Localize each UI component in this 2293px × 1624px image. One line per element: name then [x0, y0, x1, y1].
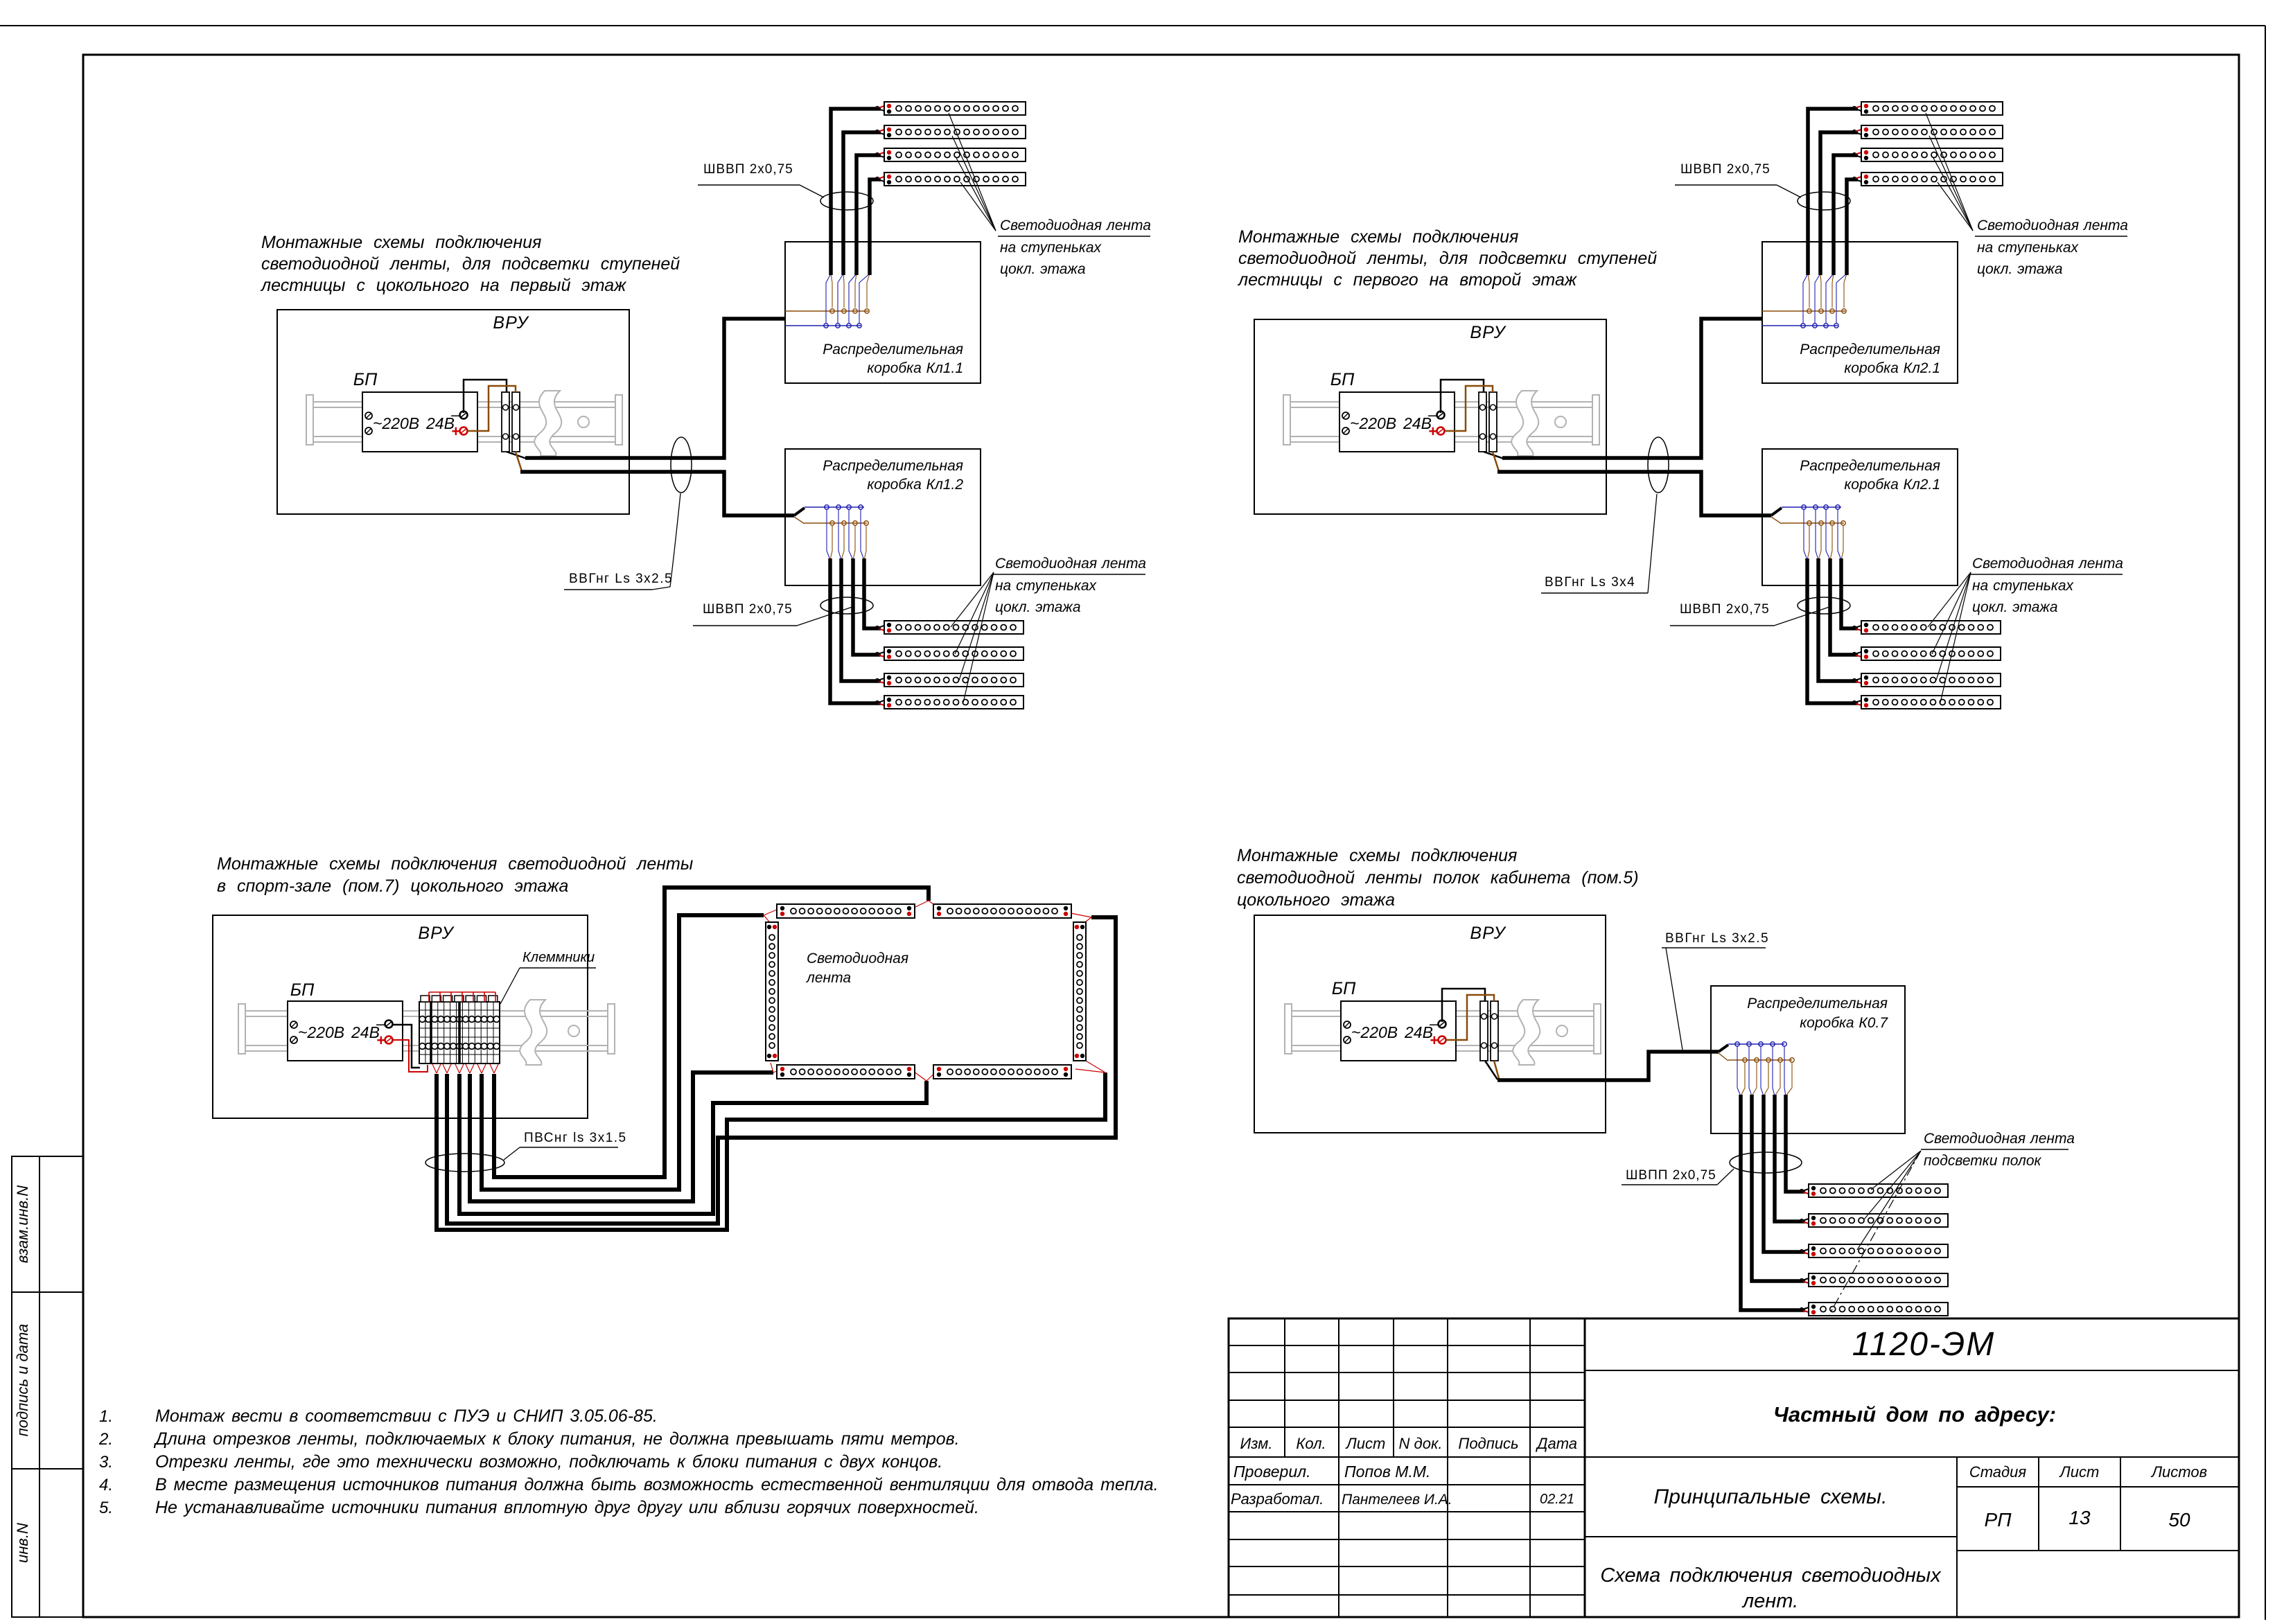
diagram 2 wire box Кл2.1 to LED strip 3 [1834, 152, 1863, 275]
svg-text:5.: 5. [99, 1499, 113, 1517]
diagram 3 wire terminal 2 to top-right corner [447, 917, 1116, 1224]
diagram 3 power supply unit BP [288, 1001, 403, 1061]
rotated label vzam.inv.N [14, 1185, 31, 1263]
diagram 2 LED strip 6 (lower group) [1861, 647, 2001, 660]
note 2 [98, 1429, 960, 1449]
svg-text:цокл. этажа: цокл. этажа [1000, 261, 1086, 277]
diagram 2 DIN terminal blocks [1479, 392, 1497, 452]
diagram 1 LED strip 6 (lower group) [884, 647, 1023, 660]
stage headers stadия list listov [1969, 1463, 2207, 1481]
diagram 4 LED strip 4 [1809, 1273, 1948, 1287]
svg-text:светодиодной ленты полок кабин: светодиодной ленты полок кабинета (пом.5… [1237, 868, 1639, 888]
diagram 2 wire PSU plus to terminal block (brown) [1445, 386, 1493, 431]
diagram 3 LED strip top-left [777, 904, 915, 918]
svg-text:02.21: 02.21 [1540, 1492, 1574, 1507]
diagram 2 box Кл2.1 feeder fan [1771, 508, 1782, 524]
diagram 1 LED strip 5 (lower group) [884, 621, 1023, 634]
svg-text:инв.N: инв.N [14, 1523, 31, 1563]
diagram 1 wire box Кл1.1 to LED strip 4 [870, 176, 886, 275]
svg-text:РП: РП [1985, 1509, 2012, 1530]
svg-text:на ступеньках: на ступеньках [1972, 578, 2075, 594]
svg-text:Монтажные схемы подключения: Монтажные схемы подключения [1237, 846, 1517, 865]
diagram 1 wire box Кл1.2 to LED strip 7 [841, 558, 886, 684]
diagram 1 wire PSU plus to terminal block (brown) [468, 386, 516, 431]
diagram 2 power supply label BP [1330, 370, 1355, 389]
diagram 4 cable marker ellipse SHVPP [1730, 1152, 1802, 1173]
svg-text:подпись и дата: подпись и дата [14, 1324, 31, 1437]
doc number 1120-EM [1852, 1326, 1996, 1363]
svg-text:БП: БП [353, 370, 378, 389]
diagram 2 distribution box Кл2.1 [1762, 449, 1958, 585]
diagram 4 DIN rail [1285, 1000, 1601, 1065]
diagram 1 wire box Кл1.2 to LED strip 6 [853, 558, 886, 657]
diagram 3 label Klemmniki [500, 950, 596, 1004]
svg-text:Дата: Дата [1535, 1435, 1577, 1452]
diagram 4 wire PSU plus to terminal block (brown) [1446, 995, 1494, 1040]
diagram 2 wire box Кл2.1 to LED strip 4 [1847, 176, 1863, 275]
diagram 4 wire box K0.7 to LED strip 5 [1741, 1095, 1811, 1313]
svg-text:подсветки полок: подсветки полок [1924, 1153, 2042, 1169]
diagram 3 LED strip left vertical [766, 922, 778, 1061]
svg-text:ВРУ: ВРУ [493, 313, 529, 333]
svg-text:Монтажные схемы подключения: Монтажные схемы подключения [261, 233, 541, 252]
svg-text:Кол.: Кол. [1296, 1435, 1326, 1452]
diagram 1 wire stubs below terminal blocks [507, 452, 527, 471]
svg-text:Частный дом по адресу:: Частный дом по адресу: [1773, 1402, 2056, 1427]
svg-text:Не устанавливайте источники пи: Не устанавливайте источники питания впло… [155, 1498, 979, 1517]
diagram 2 box Кл2.1 blue bus [1762, 324, 1838, 328]
diagram 1 LED strip 8 (lower group) [884, 696, 1023, 709]
diagram 3 wire terminal 4 to bottom-left corner [470, 1073, 773, 1201]
svg-text:Разработал.: Разработал. [1231, 1490, 1324, 1508]
svg-text:ШВПП 2x0,75: ШВПП 2x0,75 [1626, 1168, 1716, 1183]
diagram 3 DIN rail [238, 1000, 615, 1065]
svg-text:цокл. этажа: цокл. этажа [1977, 261, 2063, 277]
diagram 1 distribution box Кл1.1 [785, 242, 981, 383]
diagram 4 cable label SHVPP 2x0,75 [1622, 1168, 1734, 1185]
diagram 1 distribution box Кл1.2 [785, 449, 981, 585]
left margin attachment column [12, 1156, 83, 1617]
diagram 2 LED strip 2 (upper group) [1861, 125, 2003, 139]
diagram 3 wire terminal 5 to top-left corner [482, 915, 764, 1190]
diagram 2 cable marker ellipse ВВГнг Ls 3x4 [1648, 437, 1669, 493]
svg-text:ВРУ: ВРУ [1470, 924, 1506, 943]
diagram 3 wire terminal 3 to bottom middle junction [459, 1074, 926, 1214]
svg-text:БП: БП [290, 980, 315, 1000]
diagram 2 VRU label [1470, 323, 1506, 342]
diagram 1 wire box Кл1.1 to LED strip 1 [831, 105, 886, 275]
svg-text:~220В: ~220В [1350, 414, 1396, 432]
svg-text:коробка Кл1.2: коробка Кл1.2 [867, 477, 963, 493]
diagram 3 LED strip right vertical [1073, 922, 1086, 1061]
diagram 2 title text [1237, 227, 1657, 290]
svg-text:Распределительная: Распределительная [823, 458, 963, 474]
diagram 3 wire PSU plus to terminals (red) [392, 1040, 428, 1072]
diagram 4 box K0.7 wire fans [1737, 1046, 1792, 1096]
diagram 1 LED strip 1 (upper group) [884, 102, 1026, 115]
svg-text:Распределительная: Распределительная [1747, 996, 1888, 1012]
svg-text:цокольного этажа: цокольного этажа [1237, 890, 1395, 910]
diagram 2 upper cable marker SHVVP ellipse [1798, 192, 1850, 210]
diagram 2 DIN rail [1283, 391, 1599, 456]
svg-text:коробка Кл2.1: коробка Кл2.1 [1844, 360, 1940, 376]
svg-text:ВРУ: ВРУ [418, 924, 455, 943]
diagram 3 wire terminal 1 to bottom-right corner [437, 1073, 1105, 1230]
diagram 1 lower cable label SHVVP 2x0,75 [693, 602, 854, 626]
diagram 4 wire stubs below terminal blocks [1485, 1061, 1500, 1081]
diagram 4 distribution box K0.7 label [1747, 996, 1888, 1031]
diagram 2 wire box Кл2.1 to LED strip 8 [1807, 558, 1863, 706]
diagram 2 LED strip 8 (lower group) [1861, 696, 2001, 709]
diagram 2 wire box Кл2.1 to LED strip 1 [1808, 105, 1863, 275]
svg-text:Монтажные схемы подключения св: Монтажные схемы подключения светодиодной… [217, 854, 693, 874]
diagram 1 DIN rail [306, 391, 622, 456]
svg-text:взам.инв.N: взам.инв.N [14, 1185, 31, 1263]
diagram 3 cable marker ellipse PVSng [425, 1154, 504, 1172]
diagram 1 lower LED label leader lines [951, 572, 994, 703]
svg-text:Изм.: Изм. [1240, 1435, 1273, 1452]
svg-text:БП: БП [1332, 979, 1356, 998]
diagram 2 distribution box Кл2.1 label [1800, 458, 1940, 493]
diagram 1 LED strip 7 (lower group) [884, 673, 1023, 687]
diagram 1 cable label ВВГнг Ls 3x2.5 [564, 493, 680, 590]
svg-text:лент.: лент. [1741, 1590, 1798, 1612]
diagram 2 LED strip 7 (lower group) [1861, 673, 2001, 687]
diagram 1 cable feeder to box Кл1.1 [525, 319, 785, 458]
diagram 2 wire box Кл2.1 to LED strip 7 [1818, 558, 1863, 684]
sheet subject shema podklyucheniya [1600, 1564, 1942, 1612]
svg-text:Светодиодная лента: Светодиодная лента [1000, 218, 1151, 233]
svg-text:коробка К0.7: коробка К0.7 [1800, 1015, 1888, 1031]
diagram 1 box Кл1.2 brown bus [805, 521, 868, 525]
svg-text:ШВВП 2x0,75: ШВВП 2x0,75 [1680, 602, 1770, 617]
diagram 3 title text [217, 854, 693, 896]
diagram 1 box Кл1.1 wire fans [826, 274, 870, 324]
diagram 2 box Кл2.1 blue bus [1782, 505, 1841, 509]
diagram 1 upper cable label SHVVP 2x0,75 [698, 162, 824, 197]
diagram 1 DIN terminal blocks [502, 392, 520, 452]
diagram 4 title text [1237, 846, 1639, 910]
diagram 1 VRU cabinet box [277, 310, 629, 514]
svg-text:ШВВП 2x0,75: ШВВП 2x0,75 [703, 162, 793, 177]
sheet outer top edge [0, 25, 2265, 26]
note 1 [99, 1406, 658, 1426]
svg-text:2.: 2. [98, 1430, 113, 1449]
diagram 2 LED strip 3 (upper group) [1861, 148, 2003, 161]
svg-text:Распределительная: Распределительная [1800, 342, 1940, 358]
diagram 1 VRU label [493, 313, 529, 333]
rotated label inv.N [14, 1523, 31, 1563]
row proveril [1233, 1463, 1430, 1481]
diagram 1 distribution box Кл1.2 label [823, 458, 963, 493]
diagram 3 LED strip bottom-left [777, 1065, 915, 1079]
diagram 3 red corner connection fans [764, 901, 1105, 1081]
diagram 1 title text [260, 233, 680, 295]
rotated label podpis i data [14, 1324, 31, 1437]
svg-text:Схема подключения светодиодных: Схема подключения светодиодных [1600, 1564, 1942, 1587]
diagram 2 VRU cabinet box [1254, 319, 1606, 514]
svg-text:Лист: Лист [1345, 1435, 1386, 1452]
svg-text:БП: БП [1330, 370, 1355, 389]
svg-text:–: – [376, 1015, 385, 1032]
diagram 2 upper cable label SHVVP 2x0,75 [1675, 162, 1801, 197]
svg-text:+: + [1428, 423, 1437, 440]
diagram 4 LED strip 2 [1809, 1214, 1948, 1227]
svg-text:ШВВП 2x0,75: ШВВП 2x0,75 [1680, 162, 1771, 177]
diagram 2 LED strip 4 (upper group) [1861, 173, 2003, 186]
svg-text:3.: 3. [99, 1453, 113, 1472]
diagram 4 LED strip 3 [1809, 1244, 1948, 1257]
svg-text:цокл. этажа: цокл. этажа [995, 599, 1081, 615]
diagram 2 wire box Кл2.1 to LED strip 2 [1820, 129, 1863, 275]
diagram 2 distribution box Кл2.1 [1762, 242, 1958, 383]
svg-text:светодиодной ленты, для подсве: светодиодной ленты, для подсветки ступен… [261, 254, 680, 274]
diagram 2 cable feeder to box Кл2.1 [1502, 319, 1762, 458]
diagram 4 wire box K0.7 to LED strip 4 [1752, 1095, 1811, 1284]
svg-text:Монтажные схемы подключения: Монтажные схемы подключения [1238, 227, 1518, 247]
diagram 1 wire box Кл1.1 to LED strip 2 [843, 129, 886, 275]
svg-text:Попов М.М.: Попов М.М. [1344, 1463, 1430, 1481]
diagram 2 lower LED strips label [1970, 556, 2123, 615]
diagram 2 cable label ВВГнг Ls 3x4 [1541, 494, 1657, 593]
diagram 1 wire box Кл1.1 to LED strip 3 [856, 152, 886, 275]
diagram 1 LED strip 4 (upper group) [884, 173, 1026, 186]
diagram 1 box Кл1.1 blue bus [785, 324, 861, 328]
svg-text:24В: 24В [351, 1023, 380, 1041]
diagram 4 wire PSU minus to terminal block [1442, 989, 1485, 1022]
svg-text:N док.: N док. [1399, 1435, 1443, 1452]
diagram 3 terminal strip red connection fans [432, 1064, 498, 1073]
diagram 4 LED strip 1 [1809, 1184, 1948, 1197]
svg-text:1120-ЭМ: 1120-ЭМ [1852, 1326, 1996, 1363]
svg-text:В месте размещения источников: В месте размещения источников питания до… [155, 1475, 1159, 1494]
diagram 3 VRU label [418, 924, 455, 943]
diagram 3 label svetodiodnaya lenta [806, 951, 908, 986]
svg-text:Светодиодная лента: Светодиодная лента [1924, 1131, 2075, 1147]
svg-text:в спорт-зале (пом.7) цокольно: в спорт-зале (пом.7) цокольного этажа [217, 876, 568, 896]
svg-text:ВРУ: ВРУ [1470, 323, 1506, 342]
svg-text:13: 13 [2068, 1507, 2091, 1528]
diagram 3 LED strip bottom-right [933, 1065, 1071, 1079]
sheet title principialnye shemy [1654, 1485, 1888, 1508]
diagram 4 power supply label BP [1332, 979, 1356, 998]
svg-text:ВВГнг Ls 3x2.5: ВВГнг Ls 3x2.5 [569, 572, 673, 586]
svg-text:Светодиодная лента: Светодиодная лента [1972, 556, 2123, 572]
stage values RP 13 50 [1985, 1507, 2190, 1530]
svg-text:ВВГнг Ls 3x2.5: ВВГнг Ls 3x2.5 [1665, 931, 1769, 946]
diagram 2 box Кл2.1 brown bus [1762, 309, 1846, 313]
svg-text:~220В: ~220В [1351, 1023, 1398, 1041]
diagram 3 wire terminal 6 to top middle junction [494, 888, 929, 1177]
svg-text:+: + [1430, 1032, 1439, 1049]
svg-text:Лист: Лист [2059, 1463, 2100, 1481]
diagram 4 LED strip 5 [1809, 1303, 1948, 1316]
svg-text:–: – [1429, 1015, 1439, 1032]
diagram 2 LED strip 1 (upper group) [1861, 102, 2003, 115]
svg-text:Листов: Листов [2150, 1463, 2207, 1481]
svg-text:лестницы с первого на второй э: лестницы с первого на второй этаж [1237, 270, 1578, 290]
diagram 4 DIN terminal blocks [1480, 1001, 1498, 1061]
title block row lines (left table) [1229, 1345, 1585, 1595]
svg-text:Пантелеев И.А.: Пантелеев И.А. [1342, 1492, 1452, 1508]
diagram 2 lower LED label leader lines [1928, 572, 1971, 703]
svg-text:24В: 24В [425, 414, 455, 432]
svg-text:+: + [376, 1032, 385, 1049]
title block outer border [1229, 1318, 2239, 1617]
diagram 2 lower cable label SHVVP 2x0,75 [1670, 602, 1831, 626]
svg-text:~220В: ~220В [298, 1023, 344, 1041]
diagram 1 LED strip 2 (upper group) [884, 125, 1026, 139]
svg-text:Светодиодная лента: Светодиодная лента [1977, 218, 2128, 233]
diagram 4 LED strips label [1921, 1131, 2075, 1169]
svg-text:Клеммники: Клеммники [522, 950, 595, 965]
diagram 2 wire box Кл2.1 to LED strip 6 [1830, 558, 1863, 657]
diagram 3 terminal strip Klemmniki [419, 996, 500, 1063]
diagram 1 box Кл1.2 wire fans [827, 509, 866, 560]
diagram 1 cable feeder to box Кл1.2 [520, 472, 794, 515]
svg-text:Подпись: Подпись [1458, 1435, 1518, 1452]
svg-text:коробка Кл1.1: коробка Кл1.1 [867, 360, 963, 376]
diagram 2 box Кл2.1 wire fans [1803, 274, 1847, 324]
diagram 4 box K0.7 blue bus [1728, 1042, 1786, 1046]
diagram 1 power supply label BP [353, 370, 378, 389]
svg-text:светодиодной ленты, для подсве: светодиодной ленты, для подсветки ступен… [1238, 249, 1657, 268]
diagram 2 lower cable marker SHVVP ellipse [1798, 597, 1850, 614]
svg-text:24В: 24В [1403, 414, 1432, 432]
svg-text:лента: лента [806, 970, 851, 986]
svg-text:Принципальные схемы.: Принципальные схемы. [1654, 1485, 1888, 1508]
title block column lines (left table) [1285, 1318, 1585, 1617]
svg-text:Распределительная: Распределительная [1800, 458, 1940, 474]
diagram 4 box K0.7 feeder fan [1719, 1045, 1728, 1061]
svg-text:Светодиодная лента: Светодиодная лента [995, 556, 1146, 572]
row razrabotal [1231, 1490, 1574, 1508]
title block right-part dividers [1585, 1370, 2239, 1617]
diagram 4 cable feeder to box K0.7 [1497, 1052, 1719, 1080]
diagram 4 VRU cabinet box [1254, 915, 1606, 1133]
note 4 [99, 1475, 1159, 1494]
diagram 2 wire PSU minus to terminal block [1441, 380, 1484, 413]
svg-text:ШВВП 2x0,75: ШВВП 2x0,75 [703, 602, 793, 617]
note 3 [99, 1452, 942, 1472]
svg-text:на ступеньках: на ступеньках [995, 578, 1098, 594]
diagram 1 wire PSU minus to terminal block [464, 380, 507, 413]
diagram 2 wire box Кл2.1 to LED strip 5 [1841, 558, 1863, 631]
svg-text:на ступеньках: на ступеньках [1000, 240, 1102, 256]
diagram 1 distribution box Кл1.1 label [823, 342, 963, 376]
diagram 1 wire box Кл1.2 to LED strip 5 [864, 558, 886, 631]
diagram 3 cable label PVSng ls 3x1.5 [504, 1131, 627, 1160]
diagram 2 upper LED strips label [1975, 218, 2128, 277]
diagram 2 box Кл2.1 wire fans [1804, 509, 1843, 560]
svg-text:ПВСнг ls 3x1.5: ПВСнг ls 3x1.5 [524, 1131, 627, 1145]
diagram 4 box K0.7 brown bus [1728, 1058, 1794, 1062]
diagram 2 wire stubs below terminal blocks [1484, 452, 1504, 471]
diagram 1 cable marker ellipse ВВГнг Ls 3x2.5 [671, 437, 692, 493]
svg-text:Светодиодная: Светодиодная [807, 951, 908, 967]
diagram 1 upper LED label leader lines [949, 113, 996, 231]
diagram 2 cable feeder to box Кл2.1 [1497, 472, 1771, 515]
diagram 3 power supply label BP [290, 980, 315, 1000]
diagram 2 power supply unit BP [1339, 392, 1455, 452]
svg-text:коробка Кл2.1: коробка Кл2.1 [1844, 477, 1940, 493]
diagram 2 LED strip 5 (lower group) [1861, 621, 2001, 634]
diagram 1 upper LED strips label [998, 218, 1151, 277]
svg-text:на ступеньках: на ступеньках [1977, 240, 2080, 256]
diagram 1 box Кл1.2 blue bus [805, 505, 864, 509]
diagram 3 LED strip top-right [933, 904, 1071, 918]
diagram 1 box Кл1.2 feeder fan [794, 508, 805, 524]
svg-text:4.: 4. [99, 1476, 113, 1494]
diagram 1 LED strip 3 (upper group) [884, 148, 1026, 161]
diagram 3 wire PSU minus to terminals [392, 1025, 420, 1068]
note 5 [99, 1498, 979, 1517]
svg-text:Распределительная: Распределительная [823, 342, 963, 358]
diagram 1 lower LED strips label [993, 556, 1146, 615]
diagram 1 power supply unit BP [362, 392, 477, 452]
svg-text:–: – [450, 406, 460, 423]
svg-text:–: – [1427, 406, 1437, 423]
svg-text:цокл. этажа: цокл. этажа [1972, 599, 2058, 615]
diagram 4 distribution box K0.7 [1711, 986, 1905, 1133]
diagram 4 VRU label [1470, 924, 1506, 943]
diagram 4 power supply unit BP [1341, 1001, 1456, 1061]
object name chastny dom [1773, 1402, 2056, 1427]
svg-text:50: 50 [2168, 1509, 2190, 1530]
svg-text:Отрезки ленты, где это техниче: Отрезки ленты, где это технически возмож… [155, 1452, 942, 1472]
diagram 1 box Кл1.1 brown bus [785, 309, 869, 313]
svg-text:Монтаж вести в соответствии с: Монтаж вести в соответствии с ПУЭ и СНИП… [155, 1406, 658, 1426]
sheet outer right edge [2265, 26, 2266, 1620]
svg-text:~220В: ~220В [373, 414, 419, 432]
diagram 3 terminal strip red jumper comb [429, 992, 495, 1002]
diagram 2 distribution box Кл2.1 label [1800, 342, 1940, 376]
diagram 1 upper cable marker SHVVP ellipse [820, 192, 873, 210]
svg-text:1.: 1. [99, 1407, 113, 1426]
svg-text:ВВГнг Ls 3x4: ВВГнг Ls 3x4 [1545, 575, 1635, 590]
diagram 3 VRU cabinet box [213, 915, 588, 1118]
svg-text:24В: 24В [1404, 1023, 1433, 1041]
diagram 1 lower cable marker SHVVP ellipse [820, 597, 873, 614]
diagram 4 cable label VVGng Ls 3x2.5 [1662, 931, 1769, 1050]
diagram 4 wire box K0.7 to LED strip 3 [1764, 1095, 1811, 1255]
diagram 4 wire box K0.7 to LED strip 2 [1775, 1095, 1811, 1224]
diagram 4 LED label leader lines [1829, 1151, 1921, 1314]
svg-text:Стадия: Стадия [1969, 1463, 2027, 1481]
diagram 1 wire box Кл1.2 to LED strip 8 [830, 558, 886, 706]
svg-text:Проверил.: Проверил. [1233, 1463, 1311, 1481]
svg-text:лестницы с цокольного на первы: лестницы с цокольного на первый этаж [260, 276, 627, 295]
header row Izm Kol List Ndok Podpis Data [1240, 1435, 1577, 1452]
svg-text:Длина отрезков ленты, подключа: Длина отрезков ленты, подключаемых к бло… [153, 1429, 960, 1449]
diagram 2 upper LED label leader lines [1926, 113, 1973, 231]
svg-text:+: + [451, 423, 460, 440]
diagram 4 wire box K0.7 to LED strip 1 [1786, 1095, 1811, 1194]
diagram 2 box Кл2.1 brown bus [1782, 521, 1845, 525]
